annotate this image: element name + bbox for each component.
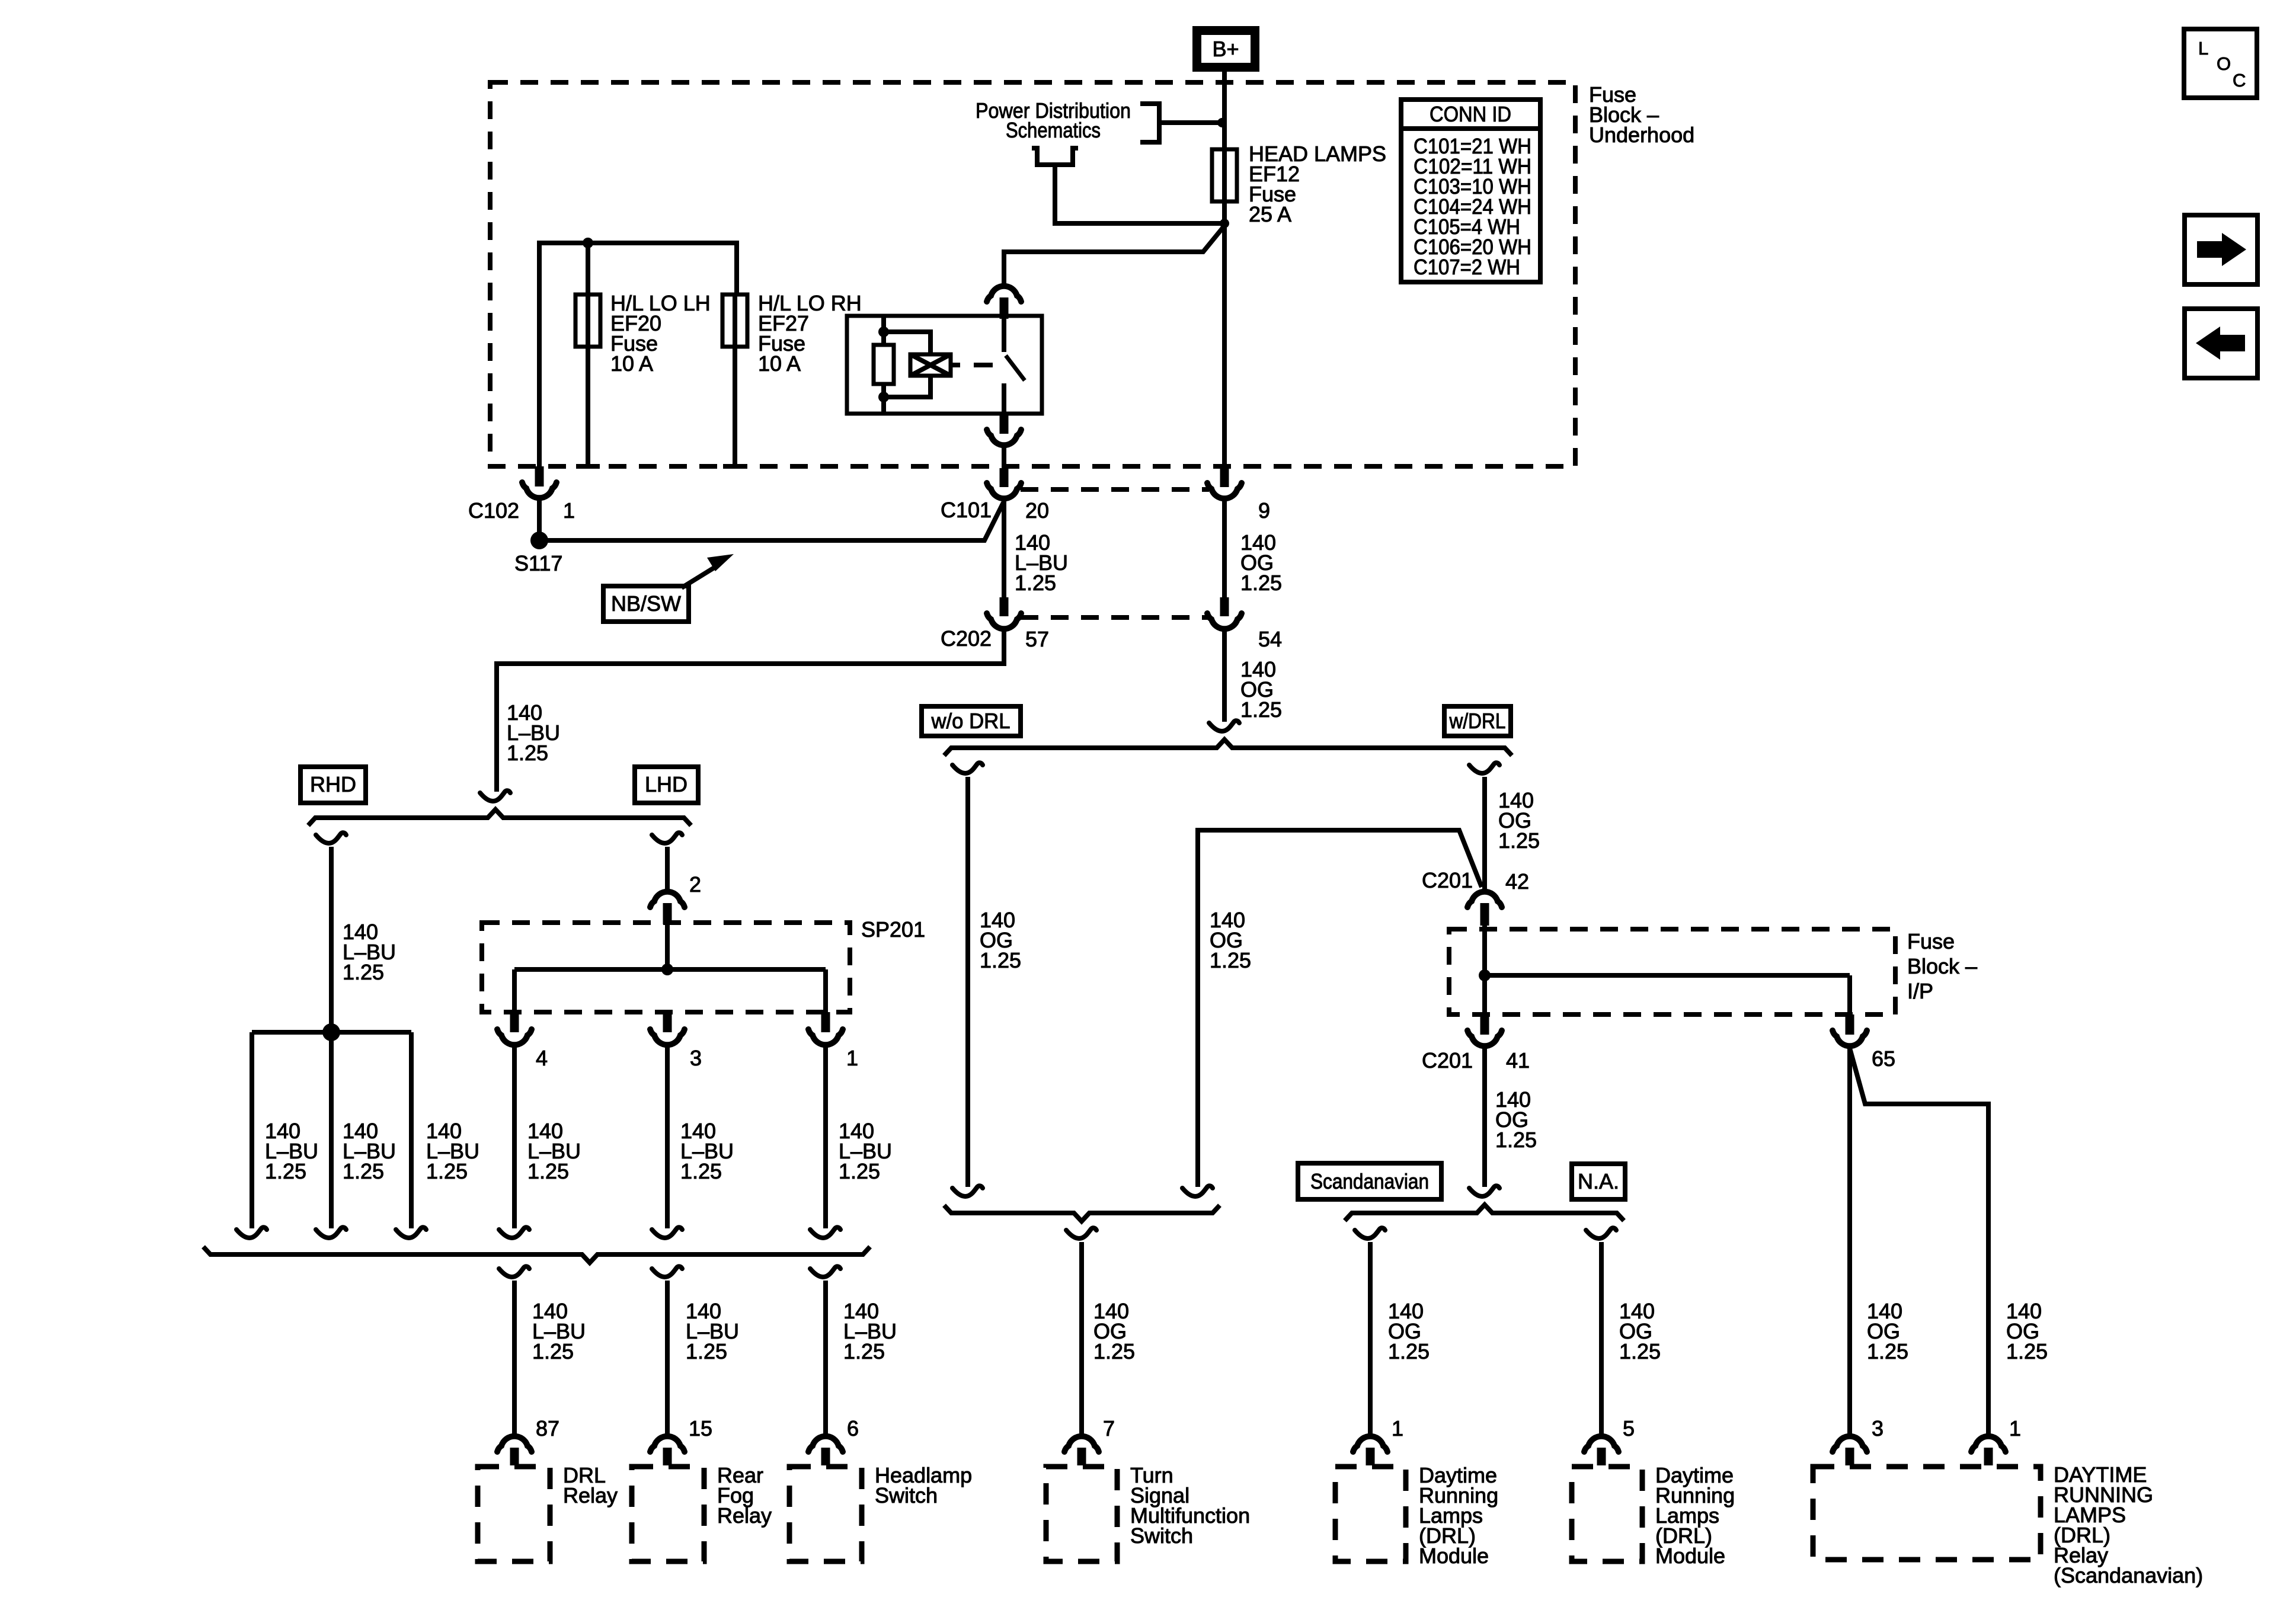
CONN ID table box xyxy=(1401,100,1540,282)
relay winding box with X xyxy=(910,354,951,376)
terminal tick EF20 at boundary xyxy=(576,464,600,469)
node relay coil top xyxy=(878,327,889,337)
C201 pin 41 terminal bar xyxy=(1480,1014,1489,1035)
svg-text:(Scandanavian): (Scandanavian) xyxy=(2054,1563,2203,1587)
svg-text:Module: Module xyxy=(1655,1544,1725,1568)
node junction EF20 feed xyxy=(583,238,593,248)
svg-text:B+: B+ xyxy=(1212,37,1239,61)
svg-text:57: 57 xyxy=(1025,627,1049,651)
svg-text:20: 20 xyxy=(1025,498,1049,523)
svg-text:Relay: Relay xyxy=(563,1483,618,1507)
svg-text:1.25: 1.25 xyxy=(1495,1128,1537,1152)
wire horizontal EF20/EF27 feed xyxy=(539,243,737,466)
pin 2 terminal bar xyxy=(663,903,672,924)
svg-text:1: 1 xyxy=(846,1046,858,1070)
svg-text:Relay: Relay xyxy=(717,1503,772,1528)
wire bracket stem to fuse-bottom junction xyxy=(1055,165,1224,223)
svg-text:1.25: 1.25 xyxy=(1388,1339,1430,1363)
connector C101 pin 9 terminal bar xyxy=(1220,468,1229,487)
SP201 pin 3 terminal bar xyxy=(663,1012,672,1032)
wire pin 65 to DRL relay pin 3 xyxy=(1847,1048,1852,1434)
prev-page arrow box xyxy=(2185,309,2257,378)
svg-text:1.25: 1.25 xyxy=(1498,828,1540,853)
svg-text:41: 41 xyxy=(1506,1048,1530,1073)
pin 1 terminal bar xyxy=(1366,1448,1375,1465)
curl RHD branch start xyxy=(316,833,346,843)
wire I/P internal right xyxy=(1847,975,1852,1014)
wire bracket to B+ wire xyxy=(1159,120,1222,125)
wire B+ to fuse EF12 xyxy=(1222,72,1227,149)
wire SP201-1 down xyxy=(823,1047,828,1228)
curl Scandanavian branch start xyxy=(1355,1228,1385,1238)
lower bus w/o DRL xyxy=(944,1205,1220,1221)
label box LHD xyxy=(635,767,698,803)
svg-text:C201: C201 xyxy=(1422,868,1473,892)
svg-text:Schematics: Schematics xyxy=(1006,118,1101,142)
curl wire end at big bus x=559 xyxy=(316,1227,346,1238)
curl wire end above DRL option bus xyxy=(1209,721,1239,731)
svg-text:1.25: 1.25 xyxy=(507,741,548,765)
curl middle link end xyxy=(1182,1186,1213,1196)
curl w/DRL branch start xyxy=(1469,763,1499,773)
bracket under Schematics xyxy=(1032,148,1078,165)
wire I/P internal horizontal xyxy=(1485,973,1850,978)
wire EF20 to underhood boundary xyxy=(586,347,590,466)
svg-text:1.25: 1.25 xyxy=(843,1339,885,1363)
node relay coil bottom xyxy=(878,392,889,402)
fuse EF20 H/L LO LH 10A xyxy=(575,295,600,347)
wire fuse EF12 down to C101 pin 9 xyxy=(1222,201,1227,468)
svg-text:SP201: SP201 xyxy=(861,917,925,942)
dashed box Fuse Block - I/P xyxy=(1449,929,1895,1014)
dashed box component at pin 7 xyxy=(1046,1467,1117,1561)
svg-text:Scandanavian: Scandanavian xyxy=(1310,1169,1429,1193)
connector C202 pin 54 terminal bar xyxy=(1220,597,1229,616)
wire C102 to splice S117 xyxy=(537,500,542,533)
label box w/DRL xyxy=(1444,706,1511,736)
wire w/o DRL branch xyxy=(965,777,970,1187)
svg-text:54: 54 xyxy=(1258,627,1282,651)
wire SP201-3 down xyxy=(665,1047,670,1228)
svg-text:Block –: Block – xyxy=(1907,954,1977,978)
svg-text:1.25: 1.25 xyxy=(1093,1339,1135,1363)
svg-text:65: 65 xyxy=(1872,1046,1895,1071)
svg-text:1.25: 1.25 xyxy=(980,948,1021,972)
node junction below fuse EF12 xyxy=(1220,219,1229,228)
wire w/DRL branch xyxy=(1482,777,1487,889)
svg-text:5: 5 xyxy=(1623,1416,1635,1441)
svg-text:1.25: 1.25 xyxy=(343,1159,384,1183)
pin 6 terminal bar xyxy=(821,1448,830,1465)
curl wire end at big bus x=868 xyxy=(499,1227,529,1238)
svg-text:1.25: 1.25 xyxy=(2006,1339,2048,1363)
C201-42 terminal bar xyxy=(1480,903,1489,926)
svg-text:I/P: I/P xyxy=(1907,979,1933,1003)
svg-text:1.25: 1.25 xyxy=(343,960,384,984)
connector at relay coil/switch input (female) xyxy=(987,286,1021,302)
splice RHD 3-way xyxy=(322,1023,340,1041)
relay output connector (female) xyxy=(987,430,1021,445)
svg-text:NB/SW: NB/SW xyxy=(611,591,681,616)
svg-text:10 A: 10 A xyxy=(758,351,801,376)
svg-text:Switch: Switch xyxy=(1130,1523,1193,1548)
label box RHD xyxy=(300,767,366,803)
dashed box component at pin 15 xyxy=(632,1467,704,1561)
dashed box Fuse Block - Underhood xyxy=(490,82,1575,466)
connector C102 pin 1 (female) xyxy=(522,482,557,498)
wire drop to headlamp switch xyxy=(823,1281,828,1434)
svg-text:1.25: 1.25 xyxy=(426,1159,468,1183)
svg-text:C201: C201 xyxy=(1422,1048,1473,1073)
wire LHD branch xyxy=(665,847,670,889)
wire SP201 pin2 internal xyxy=(665,923,670,969)
option bus w/o DRL / w/DRL xyxy=(944,740,1512,756)
curl wire end at big bus x=425 xyxy=(236,1227,267,1238)
left arrow icon xyxy=(2219,335,2245,351)
wire RHD branch xyxy=(329,847,334,1032)
I/P pin 65 terminal bar xyxy=(1846,1014,1854,1035)
curl drop start below big bus x=1393 xyxy=(810,1266,840,1277)
wire RHD drop mid xyxy=(329,1032,334,1228)
svg-text:1.25: 1.25 xyxy=(532,1339,574,1363)
svg-text:10 A: 10 A xyxy=(610,351,653,376)
svg-text:3: 3 xyxy=(1872,1416,1884,1441)
svg-text:1: 1 xyxy=(1392,1416,1403,1441)
wire EF20 vertical xyxy=(586,243,590,295)
wire to DRL module 1 xyxy=(1368,1242,1373,1434)
curl drop start below big bus x=1126 xyxy=(652,1266,682,1277)
svg-text:C: C xyxy=(2233,70,2246,91)
svg-text:C101: C101 xyxy=(941,498,992,522)
svg-text:LHD: LHD xyxy=(645,772,687,796)
LOC reference box xyxy=(2184,29,2257,98)
wire middle link to C201-42 xyxy=(1198,830,1482,1187)
dashed box splice pack SP201 xyxy=(482,923,850,1012)
connector C102 pin 1 terminal bar xyxy=(535,466,544,486)
connector C101 pin 9 (female) xyxy=(1207,483,1242,498)
relay switch lower contact xyxy=(1002,383,1006,414)
connector C201 pin 42 (female) xyxy=(1467,892,1502,907)
dashed box DRL relay (Scandanavian) xyxy=(1813,1467,2041,1560)
connector pin 15 (female) xyxy=(650,1436,685,1452)
node I/P splice xyxy=(1479,969,1491,981)
relay output terminal bar xyxy=(1000,414,1009,434)
connector pin 6 (female) xyxy=(808,1436,843,1452)
connector scand relay pin 1 (female) xyxy=(1971,1436,2006,1452)
arrow NB/SW callout xyxy=(682,568,714,588)
pin 87 terminal bar xyxy=(510,1448,519,1465)
resistor in relay xyxy=(874,345,894,384)
scand pin 1 terminal bar xyxy=(1984,1448,1993,1465)
wire to turn signal switch xyxy=(1079,1242,1084,1434)
wire pin 65 branch to pin 1 xyxy=(1850,1048,1988,1434)
big splice bus (left) xyxy=(203,1247,870,1263)
connector pin 7 (female) xyxy=(1064,1436,1099,1452)
off-page reference bracket (Power Distribution) xyxy=(1140,104,1159,142)
next-page arrow box xyxy=(2185,215,2257,284)
wire junction to headlamp relay xyxy=(1004,226,1224,284)
svg-text:7: 7 xyxy=(1103,1416,1115,1441)
svg-text:2: 2 xyxy=(689,872,701,897)
pin 5 terminal bar xyxy=(1597,1448,1606,1465)
terminal tick EF27 at boundary xyxy=(723,464,747,469)
relay switch upper contact xyxy=(1002,316,1006,352)
wire coil-top to winding xyxy=(884,332,930,354)
relay switch blade (open) xyxy=(1006,356,1025,380)
dashed box component at pin 5 xyxy=(1572,1467,1642,1561)
svg-text:Switch: Switch xyxy=(875,1483,938,1507)
svg-text:1: 1 xyxy=(563,498,575,523)
svg-text:Underhood: Underhood xyxy=(1589,123,1694,147)
label box w/o DRL xyxy=(922,706,1021,736)
svg-text:C202: C202 xyxy=(941,626,992,651)
svg-text:1.25: 1.25 xyxy=(265,1159,306,1183)
svg-text:N.A.: N.A. xyxy=(1578,1169,1619,1193)
svg-text:C107=2 WH: C107=2 WH xyxy=(1414,255,1520,279)
SP201 pin 1 terminal bar xyxy=(821,1012,830,1032)
svg-text:CONN ID: CONN ID xyxy=(1430,102,1511,126)
svg-text:87: 87 xyxy=(536,1416,559,1441)
wire I/P internal left xyxy=(1482,926,1487,1014)
power feed B+ label box xyxy=(1197,31,1255,68)
connector C101 pin 20 terminal bar xyxy=(1000,468,1009,487)
wire SP201 internal horizontal xyxy=(514,967,826,972)
wire C201-41 down xyxy=(1482,1048,1487,1187)
curl wire end at big bus x=1126 xyxy=(652,1227,682,1238)
svg-text:1: 1 xyxy=(2009,1416,2021,1441)
svg-text:1.25: 1.25 xyxy=(1619,1339,1661,1363)
relay coil branch wire top xyxy=(881,316,886,345)
wire C101-20 to C202-57 xyxy=(1002,501,1006,598)
svg-text:L: L xyxy=(2198,38,2208,59)
relay box (headlamp relay) xyxy=(847,316,1042,414)
splice S117 xyxy=(530,532,548,549)
svg-text:25 A: 25 A xyxy=(1249,202,1291,226)
svg-text:C102: C102 xyxy=(468,498,519,523)
relay actuation dashed link xyxy=(951,363,960,367)
SP201 pin 4 terminal bar xyxy=(510,1012,519,1032)
svg-text:1.25: 1.25 xyxy=(1240,571,1282,595)
svg-text:1.25: 1.25 xyxy=(680,1159,722,1183)
label box N.A. xyxy=(1572,1164,1625,1199)
dashed connector row C101 xyxy=(1021,487,1209,492)
connector C202 pin 54 (female) xyxy=(1207,613,1242,629)
svg-text:RHD: RHD xyxy=(310,772,356,796)
node SP201 splice xyxy=(661,964,673,975)
dashed box component at pin 6 xyxy=(789,1467,862,1561)
wire RHD splice horizontal xyxy=(252,1030,411,1035)
label box NB/SW xyxy=(603,586,689,622)
connector C101 pin 20 (female) xyxy=(987,483,1021,498)
connector SP201 pin 3 (female) xyxy=(650,1029,685,1045)
wire RHD drop right xyxy=(409,1032,414,1228)
wire SP201-4 down xyxy=(512,1047,517,1228)
svg-text:Module: Module xyxy=(1419,1544,1489,1568)
svg-text:w/o DRL: w/o DRL xyxy=(931,709,1011,733)
curl C201-41 wire end xyxy=(1469,1186,1499,1196)
connector pin 87 (female) xyxy=(497,1436,532,1452)
curl LHD branch start xyxy=(652,833,682,843)
wire SP201 left leg xyxy=(512,969,517,1014)
pin 15 terminal bar xyxy=(663,1448,672,1465)
svg-text:1.25: 1.25 xyxy=(1240,697,1282,722)
svg-text:S117: S117 xyxy=(514,551,562,575)
wire EF27 to underhood boundary xyxy=(733,347,737,466)
svg-text:O: O xyxy=(2217,53,2231,74)
curl wire end above RHD/LHD bus xyxy=(480,790,510,801)
dashed box component at pin 1 xyxy=(1335,1467,1406,1561)
svg-text:Fuse: Fuse xyxy=(1907,929,1955,953)
wire drop to DRL relay xyxy=(512,1281,517,1434)
svg-text:3: 3 xyxy=(690,1046,702,1070)
svg-text:1.25: 1.25 xyxy=(527,1159,569,1183)
connector pin 5 (female) xyxy=(1584,1436,1619,1452)
connector C201 pin 41 (female) xyxy=(1467,1030,1502,1046)
option bus RHD/LHD xyxy=(308,809,691,825)
curl turn signal drop start xyxy=(1066,1228,1096,1238)
svg-text:15: 15 xyxy=(689,1416,712,1441)
svg-text:1.25: 1.25 xyxy=(839,1159,880,1183)
fuse EF12 HEAD LAMPS 25A xyxy=(1212,149,1237,201)
relay coil branch wire bottom xyxy=(881,384,886,414)
curl w/o DRL branch start xyxy=(952,763,983,773)
connector pin 1 (female) xyxy=(1353,1436,1387,1452)
relay input terminal bar xyxy=(1000,297,1009,319)
scand pin 3 terminal bar xyxy=(1846,1448,1854,1465)
dashed connector row C202 xyxy=(1021,615,1209,620)
connector C202 pin 57 terminal bar xyxy=(1000,597,1009,616)
connector C202 pin 57 (female) xyxy=(987,613,1021,629)
wire SP201 right leg xyxy=(823,969,828,1014)
svg-text:4: 4 xyxy=(536,1046,548,1070)
wire C101-9 to C202-54 xyxy=(1222,501,1227,598)
label box Scandanavian xyxy=(1298,1163,1441,1199)
wire C202-54 down xyxy=(1222,631,1227,722)
svg-text:1.25: 1.25 xyxy=(1867,1339,1908,1363)
node junction on B+ wire xyxy=(1217,118,1227,127)
curl drop start below big bus x=868 xyxy=(499,1266,529,1277)
wire to DRL module 2 xyxy=(1599,1242,1604,1434)
curl wire end at big bus x=694 xyxy=(396,1227,426,1238)
curl wire end at big bus x=1393 xyxy=(810,1227,840,1238)
dashed box component at pin 87 xyxy=(478,1467,550,1561)
wire relay output to C101 pin 20 xyxy=(1002,447,1006,468)
connector SP201 pin 2 (female) xyxy=(650,892,685,907)
wire RHD drop left xyxy=(250,1032,254,1228)
svg-text:w/DRL: w/DRL xyxy=(1449,709,1506,733)
svg-text:9: 9 xyxy=(1258,498,1270,523)
wire S117 to C101 pin 20 xyxy=(539,502,1003,540)
connector SP201 pin 4 (female) xyxy=(497,1029,532,1045)
right arrow icon xyxy=(2197,241,2223,258)
curl N.A. branch start xyxy=(1586,1228,1616,1238)
svg-text:1.25: 1.25 xyxy=(686,1339,727,1363)
svg-text:1.25: 1.25 xyxy=(1015,571,1056,595)
wire coil-bottom to winding xyxy=(884,376,930,397)
fuse EF27 H/L LO RH 10A xyxy=(722,295,747,347)
connector I/P pin 65 (female) xyxy=(1833,1030,1867,1046)
svg-text:6: 6 xyxy=(847,1416,859,1441)
svg-text:1.25: 1.25 xyxy=(1210,948,1251,972)
svg-text:42: 42 xyxy=(1505,869,1529,894)
pin 7 terminal bar xyxy=(1077,1448,1086,1465)
connector scand relay pin 3 (female) xyxy=(1833,1436,1867,1452)
connector SP201 pin 1 (female) xyxy=(808,1029,843,1045)
wire C202-57 to RHD/LHD split xyxy=(497,631,1004,792)
wire drop to rear fog relay xyxy=(665,1281,670,1434)
option bus Scandanavian/N.A. xyxy=(1345,1205,1624,1221)
curl w/o DRL left end xyxy=(952,1186,983,1196)
